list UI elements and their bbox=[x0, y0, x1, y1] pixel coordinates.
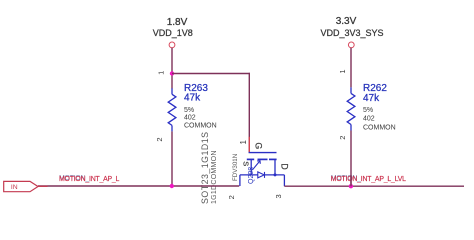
svg-text:COMMON: COMMON bbox=[363, 124, 396, 131]
svg-text:D: D bbox=[280, 163, 290, 169]
channel source dash bbox=[247, 158, 254, 160]
substrate line bbox=[240, 174, 258, 176]
svg-text:47k: 47k bbox=[184, 92, 201, 103]
source contact lead bbox=[250, 159, 252, 175]
port stub red bbox=[38, 185, 48, 187]
svg-text:2: 2 bbox=[338, 136, 347, 140]
drain pin 3 lead bbox=[283, 175, 285, 186]
wire R262 bottom to net MOTION_INT_AP_L_LVL bbox=[350, 131, 352, 187]
transistor Q208 FDV301N bbox=[240, 153, 285, 187]
wire R263 bottom to net MOTION_INT_AP_L bbox=[171, 131, 173, 186]
svg-text:402: 402 bbox=[184, 115, 196, 122]
substrate arrow bbox=[253, 161, 260, 170]
svg-text:2: 2 bbox=[227, 195, 236, 199]
body diode bbox=[258, 172, 264, 178]
drain contact lead bbox=[274, 159, 276, 175]
gate pin stub (red) of Q208 bbox=[248, 137, 250, 153]
svg-text:402: 402 bbox=[363, 116, 375, 123]
port IN bbox=[4, 181, 38, 191]
svg-text:S: S bbox=[242, 161, 251, 166]
svg-text:47k: 47k bbox=[363, 93, 380, 104]
wire R262 overlay across label bbox=[350, 175, 352, 186]
resistor R262 bbox=[347, 87, 355, 130]
svg-text:SOT23_1G1D1S: SOT23_1G1D1S bbox=[200, 131, 210, 204]
svg-text:2: 2 bbox=[155, 137, 164, 141]
wire VDD_3V3_SYS to R262 bbox=[350, 48, 352, 88]
R263 value labels bbox=[184, 83, 217, 129]
svg-text:5%: 5% bbox=[184, 107, 194, 114]
node junction VDD_1V8 / R263 / gate branch bbox=[170, 71, 174, 75]
svg-text:5%: 5% bbox=[363, 107, 373, 114]
power symbol VDD_3V3_SYS bbox=[320, 16, 383, 48]
wire gate branch horizontal bbox=[172, 73, 250, 75]
wire net MOTION_INT_AP_L bbox=[38, 185, 239, 187]
svg-text:VDD_1V8: VDD_1V8 bbox=[153, 28, 193, 38]
node junction R262 / net bbox=[349, 184, 353, 188]
svg-text:1: 1 bbox=[156, 71, 165, 75]
R262 value labels bbox=[363, 83, 396, 132]
power symbol VDD_1V8 bbox=[153, 17, 193, 48]
wire net MOTION_INT_AP_L_LVL bbox=[284, 185, 464, 187]
svg-text:MOTION_INT_AP_L_LVL: MOTION_INT_AP_L_LVL bbox=[331, 176, 406, 183]
wire gate branch vertical to Q208 gate bbox=[248, 73, 250, 153]
svg-text:G: G bbox=[254, 142, 264, 149]
drain-substrate junction dot bbox=[274, 173, 277, 176]
channel drain dash bbox=[269, 158, 277, 160]
channel middle dash bbox=[258, 158, 268, 160]
svg-text:1.8V: 1.8V bbox=[167, 17, 188, 28]
svg-text:COMMON: COMMON bbox=[184, 122, 217, 129]
svg-text:1: 1 bbox=[239, 140, 248, 145]
svg-text:3: 3 bbox=[274, 194, 283, 198]
resistor R263 bbox=[168, 88, 176, 131]
gate bar bbox=[249, 152, 277, 154]
svg-text:MOTION_INT_AP_L: MOTION_INT_AP_L bbox=[59, 176, 120, 183]
svg-text:VDD_3V3_SYS: VDD_3V3_SYS bbox=[320, 28, 383, 38]
source pin 2 lead bbox=[239, 175, 241, 186]
svg-text:Q208: Q208 bbox=[248, 167, 255, 184]
svg-text:3.3V: 3.3V bbox=[336, 16, 357, 27]
svg-text:IN: IN bbox=[11, 184, 18, 191]
wire VDD_1V8 to R263 and gate branch node bbox=[171, 48, 173, 89]
svg-text:1: 1 bbox=[338, 69, 347, 73]
svg-text:1G1DCOMMON: 1G1DCOMMON bbox=[211, 150, 218, 204]
node junction R263 / net bbox=[170, 184, 174, 188]
svg-text:FDV301N: FDV301N bbox=[232, 154, 239, 181]
